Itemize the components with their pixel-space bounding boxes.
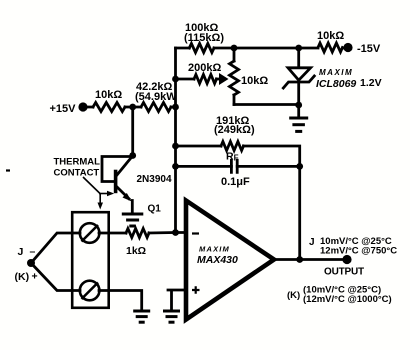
- svg-text:OUTPUT: OUTPUT: [324, 267, 364, 278]
- node junction cap right: [296, 163, 303, 170]
- capacitor C 0.1uF row: [176, 165, 300, 168]
- transistor Q1 2N3904: [131, 107, 134, 156]
- node junction 10k/42.2k: [129, 104, 136, 111]
- svg-text:(115kΩ): (115kΩ): [184, 32, 224, 44]
- svg-text:MAXIM: MAXIM: [199, 245, 230, 254]
- node junction 200k left: [172, 76, 179, 83]
- ground under Q1 emitter: [122, 213, 144, 216]
- wire 200k row: [176, 78, 222, 81]
- op-amp plus pin: [192, 286, 200, 294]
- wire + input to ground: [168, 290, 186, 311]
- node junction feedback/output: [296, 256, 303, 263]
- op-amp minus pin: [192, 232, 199, 234]
- svg-text:-15V: -15V: [357, 43, 381, 55]
- svg-text:1kΩ: 1kΩ: [126, 245, 146, 257]
- svg-text:(12mV/°C @1000°C): (12mV/°C @1000°C): [303, 294, 392, 305]
- svg-text:MAXIM: MAXIM: [319, 68, 353, 77]
- wiper arrow into pot: [219, 73, 229, 85]
- ground under + input: [163, 310, 180, 313]
- svg-text:200kΩ: 200kΩ: [188, 62, 221, 74]
- wire left vertical bus x=175.5: [174, 48, 177, 233]
- svg-text:J: J: [309, 237, 315, 248]
- svg-text:10kΩ: 10kΩ: [95, 89, 122, 101]
- svg-text:(54.9kW: (54.9kW: [135, 91, 177, 103]
- Q1 emitter diagonal with arrow: [117, 187, 130, 199]
- zener cathode bar: [283, 76, 314, 88]
- wire block top row to op-amp - input: [99, 231, 186, 234]
- wire block bottom row to ground: [99, 291, 142, 312]
- svg-text:Q1: Q1: [148, 204, 162, 215]
- op-amp U1 MAX430: [186, 201, 274, 320]
- wire RF feedback row: [176, 146, 300, 260]
- stray scan mark: [6, 169, 10, 171]
- resistor R 10k right: [318, 43, 343, 52]
- wire output: [274, 258, 347, 261]
- resistor R 10k left: [93, 103, 125, 112]
- svg-text:+15V: +15V: [50, 103, 77, 115]
- screw terminal bottom: [80, 281, 100, 301]
- screw terminal top: [80, 223, 100, 243]
- Q1 base loop wire: [102, 157, 133, 182]
- wire top row y=48: [176, 47, 349, 50]
- thermocouple junction: [27, 259, 35, 267]
- node junction cap left: [172, 163, 179, 170]
- resistor R 1k: [126, 229, 149, 238]
- zener triangle: [288, 68, 311, 80]
- capacitor plates: [231, 160, 237, 172]
- wire pot bottom to zener bottom: [234, 103, 299, 106]
- thermocouple wires: [31, 233, 80, 291]
- arrow to Q1: [99, 193, 109, 195]
- terminal +15V: [78, 102, 87, 111]
- svg-text:10kΩ: 10kΩ: [241, 75, 268, 87]
- svg-text:J: J: [18, 246, 24, 258]
- svg-text:(K): (K): [15, 271, 30, 283]
- resistor R 200k: [194, 75, 217, 84]
- terminal -15V: [343, 43, 352, 52]
- connector block J1: [72, 212, 109, 308]
- svg-text:2N3904: 2N3904: [137, 174, 172, 185]
- svg-text:0.1μF: 0.1μF: [221, 176, 250, 188]
- svg-text:10kΩ: 10kΩ: [317, 30, 344, 42]
- ground under zener: [297, 105, 300, 118]
- wire +15V rail: [83, 106, 176, 109]
- callout leader line: [83, 177, 100, 194]
- svg-text:(249kΩ): (249kΩ): [214, 124, 255, 136]
- svg-text:12mV/°C @750°C: 12mV/°C @750°C: [320, 246, 397, 257]
- diode ICL8069 zener branch: [297, 48, 300, 105]
- ground under block return: [133, 310, 150, 313]
- node junction zener bottom: [295, 102, 302, 109]
- Q1 collector diagonal: [117, 156, 133, 176]
- svg-text:+: +: [32, 271, 38, 283]
- svg-text:(K): (K): [287, 290, 300, 301]
- terminal output: [342, 255, 351, 264]
- arrow to block: [99, 194, 101, 204]
- node junction 100k/pot: [231, 45, 238, 52]
- svg-text:THERMAL: THERMAL: [54, 157, 101, 168]
- node junction zener top: [295, 45, 302, 52]
- resistor R 100k: [189, 44, 214, 53]
- svg-text:CONTACT: CONTACT: [54, 168, 100, 179]
- resistor RF 191k: [221, 142, 244, 151]
- resistor R 42.2k: [141, 103, 171, 112]
- node junction 42.2k/vertical: [172, 104, 179, 111]
- Q1 base bar: [114, 170, 118, 194]
- node junction inverting input: [172, 229, 179, 236]
- svg-text:MAX430: MAX430: [197, 254, 238, 266]
- potentiometer R 10k: [233, 48, 236, 105]
- node junction Q1 top: [129, 152, 136, 159]
- svg-text:–: –: [30, 246, 36, 258]
- svg-text:1.2V: 1.2V: [360, 77, 382, 89]
- node junction RF left: [172, 143, 179, 150]
- svg-text:ICL8069: ICL8069: [316, 78, 356, 90]
